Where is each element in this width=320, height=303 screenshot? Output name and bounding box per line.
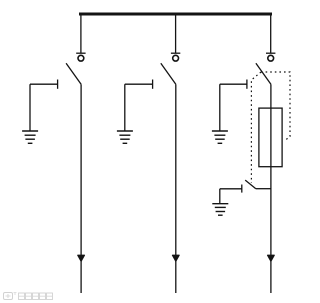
fuse FU (rectangle)	[259, 108, 282, 167]
wire: ES4 vertical to ground	[219, 189, 221, 204]
dashed enclosure of withdrawable fuse unit	[251, 72, 290, 183]
earth switch ES4 fixed contact tick	[241, 185, 243, 193]
switch QS3 open blade	[256, 63, 271, 84]
load arrow feeder 2	[172, 255, 179, 261]
earth switch ES4 open blade	[245, 180, 256, 189]
switch QS3 fixed contact tick	[266, 52, 275, 54]
wire: feeder 3 drop from busbar	[270, 14, 272, 53]
wire: feeder 2 vertical to load	[175, 84, 177, 293]
wire: feeder 1 drop from busbar	[80, 14, 82, 53]
wire: ES2 vertical to ground	[124, 84, 126, 131]
switch QS1 open blade	[66, 63, 81, 84]
wire: ES2 horizontal	[125, 83, 153, 85]
wire: ES1 horizontal	[30, 83, 58, 85]
wire: feeder 3 vertical to load	[270, 84, 272, 293]
load arrow feeder 3	[268, 255, 275, 261]
earth switch ES3 fixed contact tick	[246, 80, 248, 89]
ground symbol G3	[212, 131, 228, 143]
wire: ES3 vertical to ground	[219, 84, 221, 131]
switch QS1 fixed contact tick	[76, 52, 85, 54]
load arrow feeder 1	[78, 255, 85, 261]
wire: ES4 horizontal	[220, 188, 242, 190]
wire: ES3 horizontal	[220, 83, 247, 85]
wire: feeder 2 drop from busbar	[175, 14, 177, 53]
ground symbol G2	[117, 131, 133, 143]
switch QS1 bushing circle	[78, 55, 84, 61]
switch QS2 fixed contact tick	[171, 52, 180, 54]
earth switch ES2 fixed contact tick	[152, 80, 154, 89]
busbar	[79, 13, 272, 16]
ground symbol G4	[212, 204, 228, 216]
wire: ES1 vertical to ground	[29, 84, 31, 131]
ground symbol G1	[22, 131, 38, 143]
switch QS2 bushing circle	[173, 55, 179, 61]
switch QS3 bushing circle	[268, 55, 274, 61]
switch QS2 open blade	[161, 63, 176, 84]
earth switch ES1 fixed contact tick	[57, 80, 59, 89]
wire: feeder 1 vertical to load	[80, 84, 82, 293]
wire: lower earth switch ES4 link to feeder 3	[256, 188, 271, 190]
